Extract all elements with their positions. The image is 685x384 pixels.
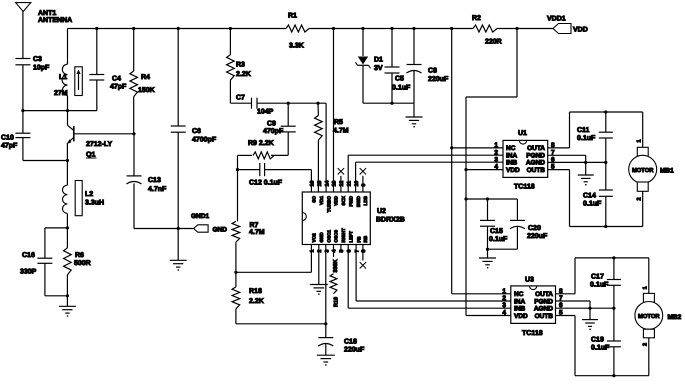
svg-text:NC: NC [514,291,524,298]
svg-text:2: 2 [317,250,323,253]
svg-text:MB2: MB2 [668,314,682,321]
svg-text:2.2K: 2.2K [249,298,264,305]
svg-text:0.1uF: 0.1uF [392,85,411,92]
svg-text:2712-LY: 2712-LY [86,141,113,148]
svg-text:15: 15 [317,181,323,187]
svg-text:16: 16 [310,181,316,187]
svg-text:7: 7 [354,250,360,253]
svg-text:5: 5 [339,250,345,253]
svg-text:4.7M: 4.7M [333,128,349,135]
svg-text:10: 10 [354,181,360,187]
svg-text:2: 2 [642,343,648,346]
svg-text:0.1uF: 0.1uF [590,282,609,289]
svg-text:LEFT: LEFT [348,231,353,243]
svg-text:C17: C17 [591,274,604,281]
svg-text:TC118: TC118 [514,184,535,191]
svg-text:11: 11 [346,181,352,187]
svg-text:R10: R10 [334,297,340,307]
svg-text:RIGHT: RIGHT [341,228,346,242]
svg-text:220uF: 220uF [344,347,365,354]
svg-text:VDD: VDD [506,167,520,174]
svg-text:330K: 330K [333,259,339,272]
svg-text:3: 3 [324,250,330,253]
svg-text:47pF: 47pF [1,143,18,150]
svg-text:BDRX2B: BDRX2B [376,217,405,224]
svg-text:500R: 500R [74,260,91,267]
svg-text:1: 1 [637,139,643,142]
svg-text:6: 6 [346,250,352,253]
svg-text:INB: INB [506,160,518,167]
svg-text:27M: 27M [54,90,68,97]
svg-text:L1: L1 [59,74,67,81]
svg-text:FB: FB [356,236,361,243]
svg-text:GND: GND [319,232,324,243]
svg-text:BWD: BWD [356,195,361,207]
svg-text:C6: C6 [192,128,201,135]
svg-text:C3: C3 [33,56,42,63]
svg-text:3.3uH: 3.3uH [85,200,104,207]
svg-text:R3: R3 [236,62,245,69]
svg-text:C14: C14 [583,193,596,200]
svg-text:OSC1: OSC1 [326,230,331,243]
svg-text:R18: R18 [249,288,262,295]
svg-text:104P: 104P [257,109,274,116]
svg-text:L2: L2 [85,191,93,198]
svg-text:4.7nF: 4.7nF [148,186,167,193]
svg-text:VDD1: VDD1 [547,16,566,23]
svg-text:2: 2 [502,295,506,302]
svg-text:INB: INB [514,306,526,313]
svg-text:VDD: VDD [334,195,339,205]
svg-text:C7: C7 [236,95,245,102]
svg-text:0.1uF: 0.1uF [583,201,602,208]
svg-text:Q1: Q1 [86,152,95,159]
svg-text:220uF: 220uF [527,233,548,240]
svg-text:D1: D1 [374,57,383,64]
svg-text:12: 12 [339,181,345,187]
svg-text:C8: C8 [428,68,437,75]
svg-text:150K: 150K [138,87,155,94]
svg-text:9: 9 [361,184,367,187]
svg-text:R9 2.2K: R9 2.2K [248,140,274,147]
svg-text:C20: C20 [528,225,541,232]
svg-text:4700pF: 4700pF [192,137,217,144]
svg-text:INA: INA [506,153,518,160]
svg-text:2: 2 [637,197,643,200]
svg-text:0.1uF: 0.1uF [577,135,596,142]
svg-text:R1: R1 [288,13,297,20]
svg-text:SCX: SCX [341,195,346,205]
svg-text:C9: C9 [267,121,276,128]
svg-text:MOTOR: MOTOR [632,167,654,174]
svg-text:220uF: 220uF [428,76,449,83]
svg-text:C4: C4 [112,76,121,83]
svg-text:3: 3 [494,156,498,163]
svg-text:VD1: VD1 [319,196,324,205]
svg-text:PGND: PGND [526,153,545,160]
svg-text:2: 2 [494,149,498,156]
svg-text:C19: C19 [591,337,604,344]
svg-text:MOTOR: MOTOR [638,313,660,320]
svg-text:VDD: VDD [573,27,588,34]
svg-text:VO2: VO2 [312,233,317,243]
svg-text:MB1: MB1 [660,168,674,175]
svg-text:AGND: AGND [526,160,545,167]
svg-text:0.1uF: 0.1uF [489,236,508,243]
svg-text:8: 8 [361,250,367,253]
svg-text:C16: C16 [22,252,35,259]
svg-text:R2: R2 [472,15,481,22]
svg-text:R5: R5 [334,119,343,126]
svg-text:AGND: AGND [534,306,553,313]
svg-text:10pF: 10pF [33,65,50,72]
svg-text:14: 14 [324,181,330,187]
svg-text:R4: R4 [141,74,150,81]
svg-text:4.7M: 4.7M [249,229,265,236]
svg-text:U3: U3 [525,277,534,284]
svg-text:NC: NC [506,145,516,152]
svg-text:OUTA: OUTA [527,145,545,152]
svg-text:R7: R7 [250,222,259,229]
svg-text:C5: C5 [395,76,404,83]
svg-text:INA: INA [514,298,526,305]
svg-text:PGND: PGND [534,298,553,305]
svg-text:OUTA: OUTA [535,291,553,298]
svg-text:RB: RB [363,235,368,242]
svg-text:GND1: GND1 [191,213,209,220]
svg-text:1: 1 [310,250,316,253]
svg-text:OSC0: OSC0 [334,230,339,243]
svg-text:OUTB: OUTB [527,167,546,174]
svg-text:1: 1 [642,286,648,289]
svg-text:U1: U1 [518,130,527,137]
svg-text:C10: C10 [1,135,14,142]
svg-text:TURBO: TURBO [326,196,331,213]
svg-text:FWD: FWD [348,195,353,206]
svg-text:2.2K: 2.2K [236,71,251,78]
svg-text:LDB: LDB [363,195,368,205]
svg-text:GND: GND [213,227,228,234]
svg-text:C11: C11 [577,127,590,134]
svg-text:VDD: VDD [514,313,528,320]
svg-text:47pF: 47pF [110,84,127,91]
svg-text:R6: R6 [75,252,84,259]
svg-text:0.1uF: 0.1uF [591,345,610,352]
svg-text:4: 4 [332,250,338,253]
svg-text:OUTB: OUTB [535,313,554,320]
svg-text:3V: 3V [374,65,383,72]
svg-text:SO: SO [312,196,317,203]
svg-text:C13: C13 [148,177,161,184]
svg-text:220R: 220R [485,39,502,46]
svg-text:13: 13 [332,181,338,187]
svg-text:C18: C18 [344,339,357,346]
svg-text:470pF: 470pF [263,128,284,135]
svg-text:ANTENNA: ANTENNA [38,17,72,24]
svg-text:330P: 330P [20,269,37,276]
svg-text:C12 0.1uF: C12 0.1uF [249,179,283,186]
svg-text:TC118: TC118 [522,330,543,337]
svg-text:U2: U2 [377,208,386,215]
svg-text:3.3K: 3.3K [289,43,304,50]
svg-text:ANT1: ANT1 [38,10,56,17]
svg-text:3: 3 [502,302,506,309]
svg-text:C15: C15 [490,228,503,235]
